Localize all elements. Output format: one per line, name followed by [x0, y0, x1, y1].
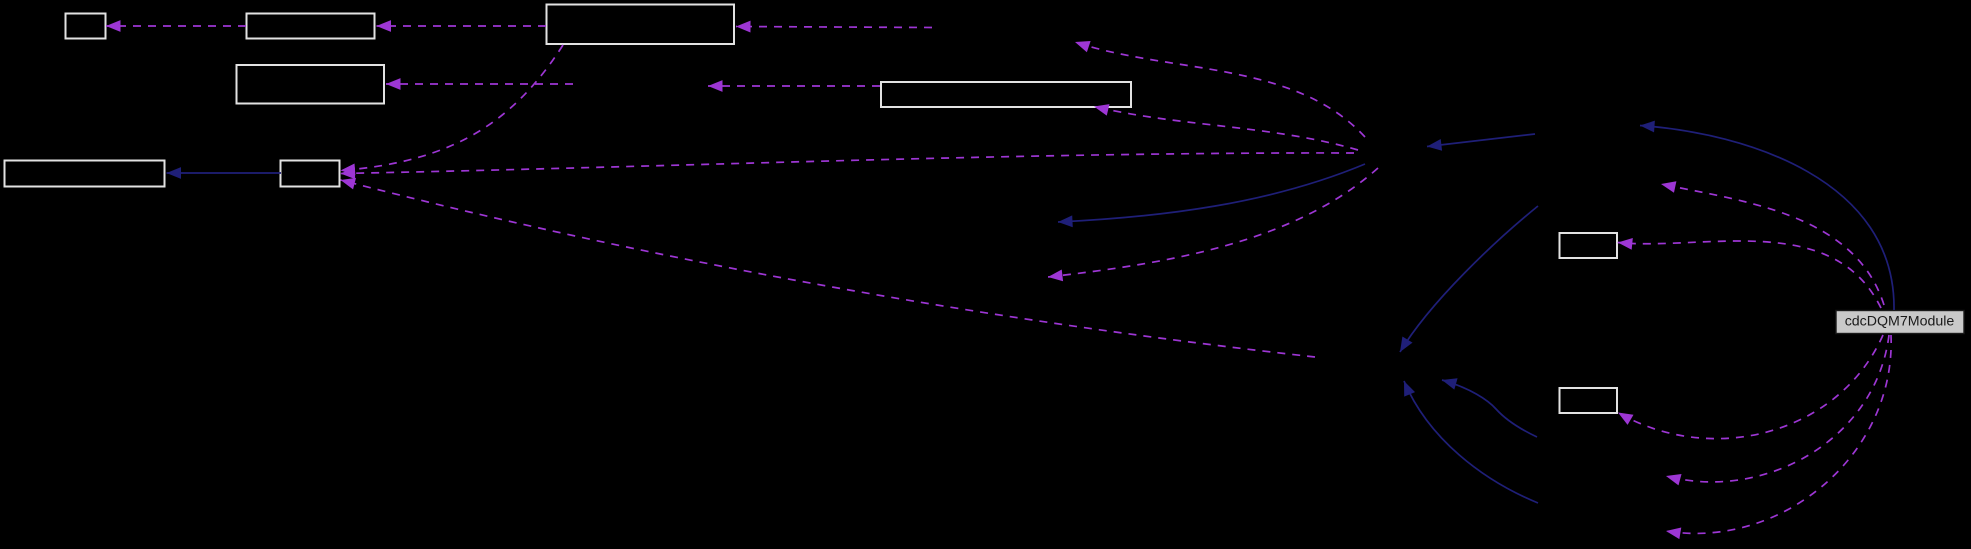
edge E6 dashed B5 to N1 [708, 85, 880, 87]
edge E14 dashed hubA to N3b [1048, 168, 1378, 277]
edge E5 dashed N1 to B4 [386, 83, 573, 85]
edge E11 solid B6b to B6a [167, 172, 282, 174]
node B4 (two-line box) [237, 65, 385, 104]
edge E1 dashed B2 to B1 [106, 25, 246, 27]
edge E2 dashed B3 to B2 [377, 25, 547, 27]
edge E16 dashed cdcDQM7Module to hidden node D [1661, 184, 1884, 305]
edge E4 dashed hubA to N2 [1075, 42, 1365, 137]
node B6a (left wide box) [5, 161, 165, 187]
node cdcDQM7Module (gray label box) [1836, 311, 1964, 334]
edge E8 dashed hubA to B6b long horizontal [341, 153, 1355, 174]
edge E13 solid hubA to N3a [1058, 164, 1365, 222]
node B6b (small box) [281, 161, 340, 187]
edge E19 dashed cdcDQM7Module to hidden node G [1666, 335, 1889, 482]
node B1 (small box top-left) [66, 14, 106, 39]
node B2 [247, 14, 375, 39]
edge E7 dashed hubA to B5 bottom corner [1094, 107, 1358, 151]
edge E23 solid hidden to hubF bottom long arc [1404, 381, 1538, 503]
edge E10 dashed hubF to B6b long diagonal [341, 180, 1316, 357]
edge E9 dashed B3 to B6b S-curve [341, 45, 564, 171]
edge E3 dashed N2 to B3 [736, 27, 932, 28]
node B7 (small box right column upper) [1560, 233, 1618, 258]
edge E20 dashed cdcDQM7Module to hidden node H [1666, 335, 1891, 533]
node B5 (wide box) [881, 82, 1131, 107]
edge E12 solid hubB to hubA [1427, 134, 1535, 147]
edge E17 dashed cdcDQM7Module to B7 [1618, 241, 1881, 308]
edge E18 dashed cdcDQM7Module to B8 [1618, 335, 1883, 439]
svg-text:cdcDQM7Module: cdcDQM7Module [1845, 314, 1955, 330]
node B8 (small box right column lower) [1560, 388, 1618, 413]
edge E24 solid hidden to hubF kinked [1442, 380, 1537, 437]
node B3 (two-line box) [547, 5, 735, 45]
edge E22 solid hidden to hubF top [1400, 206, 1538, 352]
edge E15 solid cdcDQM7Module to hubB [1640, 126, 1894, 311]
